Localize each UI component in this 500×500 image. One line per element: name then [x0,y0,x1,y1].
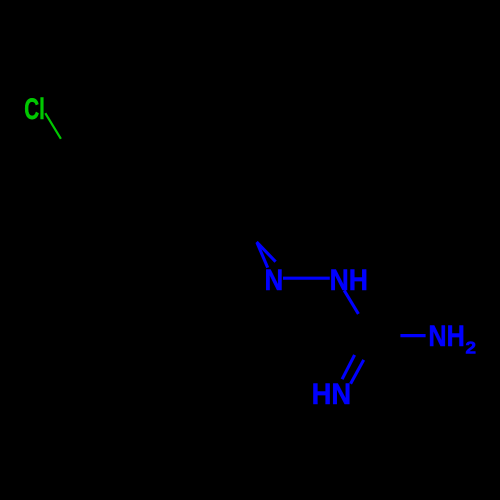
bond N1-N2 [283,277,330,280]
bond Cl-C1 (green half) [45,113,61,139]
bond C7=N1 double bond main line [257,243,268,268]
atom label N3 (HN imine) [312,378,352,411]
bond C7=N1 double bond inner line [257,242,276,262]
bond C8=N3 double bond line 2 [351,360,364,384]
bond C8=N3 double bond line 1 [342,355,355,379]
atom label Cl (chlorine) [24,93,45,125]
svg-text:NH: NH [330,264,368,297]
svg-text:HN: HN [312,378,352,411]
svg-text:2: 2 [465,337,476,357]
bond N2-C8 [344,290,358,314]
atom label N1 (hydrazone nitrogen) [265,264,284,297]
atom label N4 (NH2 amino group) [428,319,464,352]
svg-text:Cl: Cl [24,93,45,125]
bond C8-N4 (to NH2) [400,334,425,337]
atom label N2 (NH) [330,264,368,297]
svg-text:NH: NH [428,319,464,352]
subscript 2 of NH2 [465,337,476,357]
svg-text:N: N [265,264,284,297]
